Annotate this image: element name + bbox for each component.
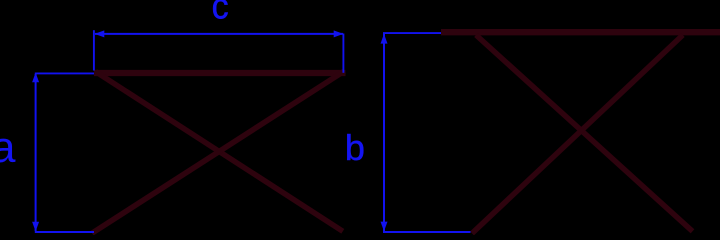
dimension a top tick (35, 72, 94, 74)
svg-text:c: c (212, 0, 229, 27)
left trestle diagonal top-left to bottom-right (96, 72, 343, 232)
dimension c right extension line (342, 34, 344, 73)
dimension b up arrowhead (381, 34, 388, 44)
dimension b top tick (383, 32, 441, 34)
left trestle diagonal bottom-left to top-right (92, 71, 345, 233)
dimension c left arrowhead (95, 30, 105, 37)
right trestle diagonal bottom-left to top-right (472, 35, 683, 233)
left trestle top rail (94, 70, 346, 76)
dimension a bottom tick (35, 231, 94, 233)
dimension a down arrowhead (32, 222, 39, 232)
dimension c horizontal line (95, 33, 343, 35)
dimension b bottom tick (383, 231, 471, 233)
dimension c left extension line (93, 30, 95, 70)
dimension a up arrowhead (32, 73, 39, 83)
dimension a vertical line (35, 74, 37, 231)
dimension b vertical line (383, 33, 385, 231)
svg-text:b: b (345, 127, 365, 168)
dimension b down arrowhead (381, 222, 388, 232)
dimension c right arrowhead (334, 30, 344, 37)
right trestle diagonal top-left to bottom-right (476, 35, 693, 231)
svg-text:a: a (0, 123, 16, 172)
right trestle top rail (441, 29, 720, 35)
